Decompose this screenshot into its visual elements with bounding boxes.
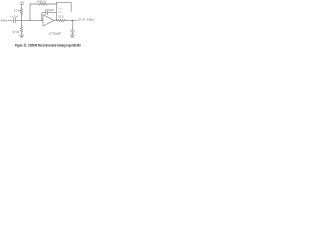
svg-text:634 Ω: 634 Ω	[37, 1, 46, 4]
svg-text:+5V: +5V	[20, 3, 25, 5]
svg-text:C0G (H): C0G (H)	[78, 18, 86, 22]
svg-text:57.6k: 57.6k	[14, 9, 21, 12]
svg-text:AINx: AINx	[1, 19, 9, 23]
svg-text:47.5k: 47.5k	[13, 31, 20, 34]
svg-text:+ 4.7µF: + 4.7µF	[10, 16, 19, 19]
svg-text:AINx: AINx	[87, 18, 96, 22]
svg-text:91 Ω: 91 Ω	[58, 16, 64, 18]
svg-text:0.1µ: 0.1µ	[58, 9, 63, 11]
svg-text:2700pF: 2700pF	[49, 32, 62, 35]
svg-text:Figure 21. CS5340 Recommended: Figure 21. CS5340 Recommended Analog Inp…	[15, 43, 82, 47]
svg-text:470pF: 470pF	[45, 9, 55, 12]
